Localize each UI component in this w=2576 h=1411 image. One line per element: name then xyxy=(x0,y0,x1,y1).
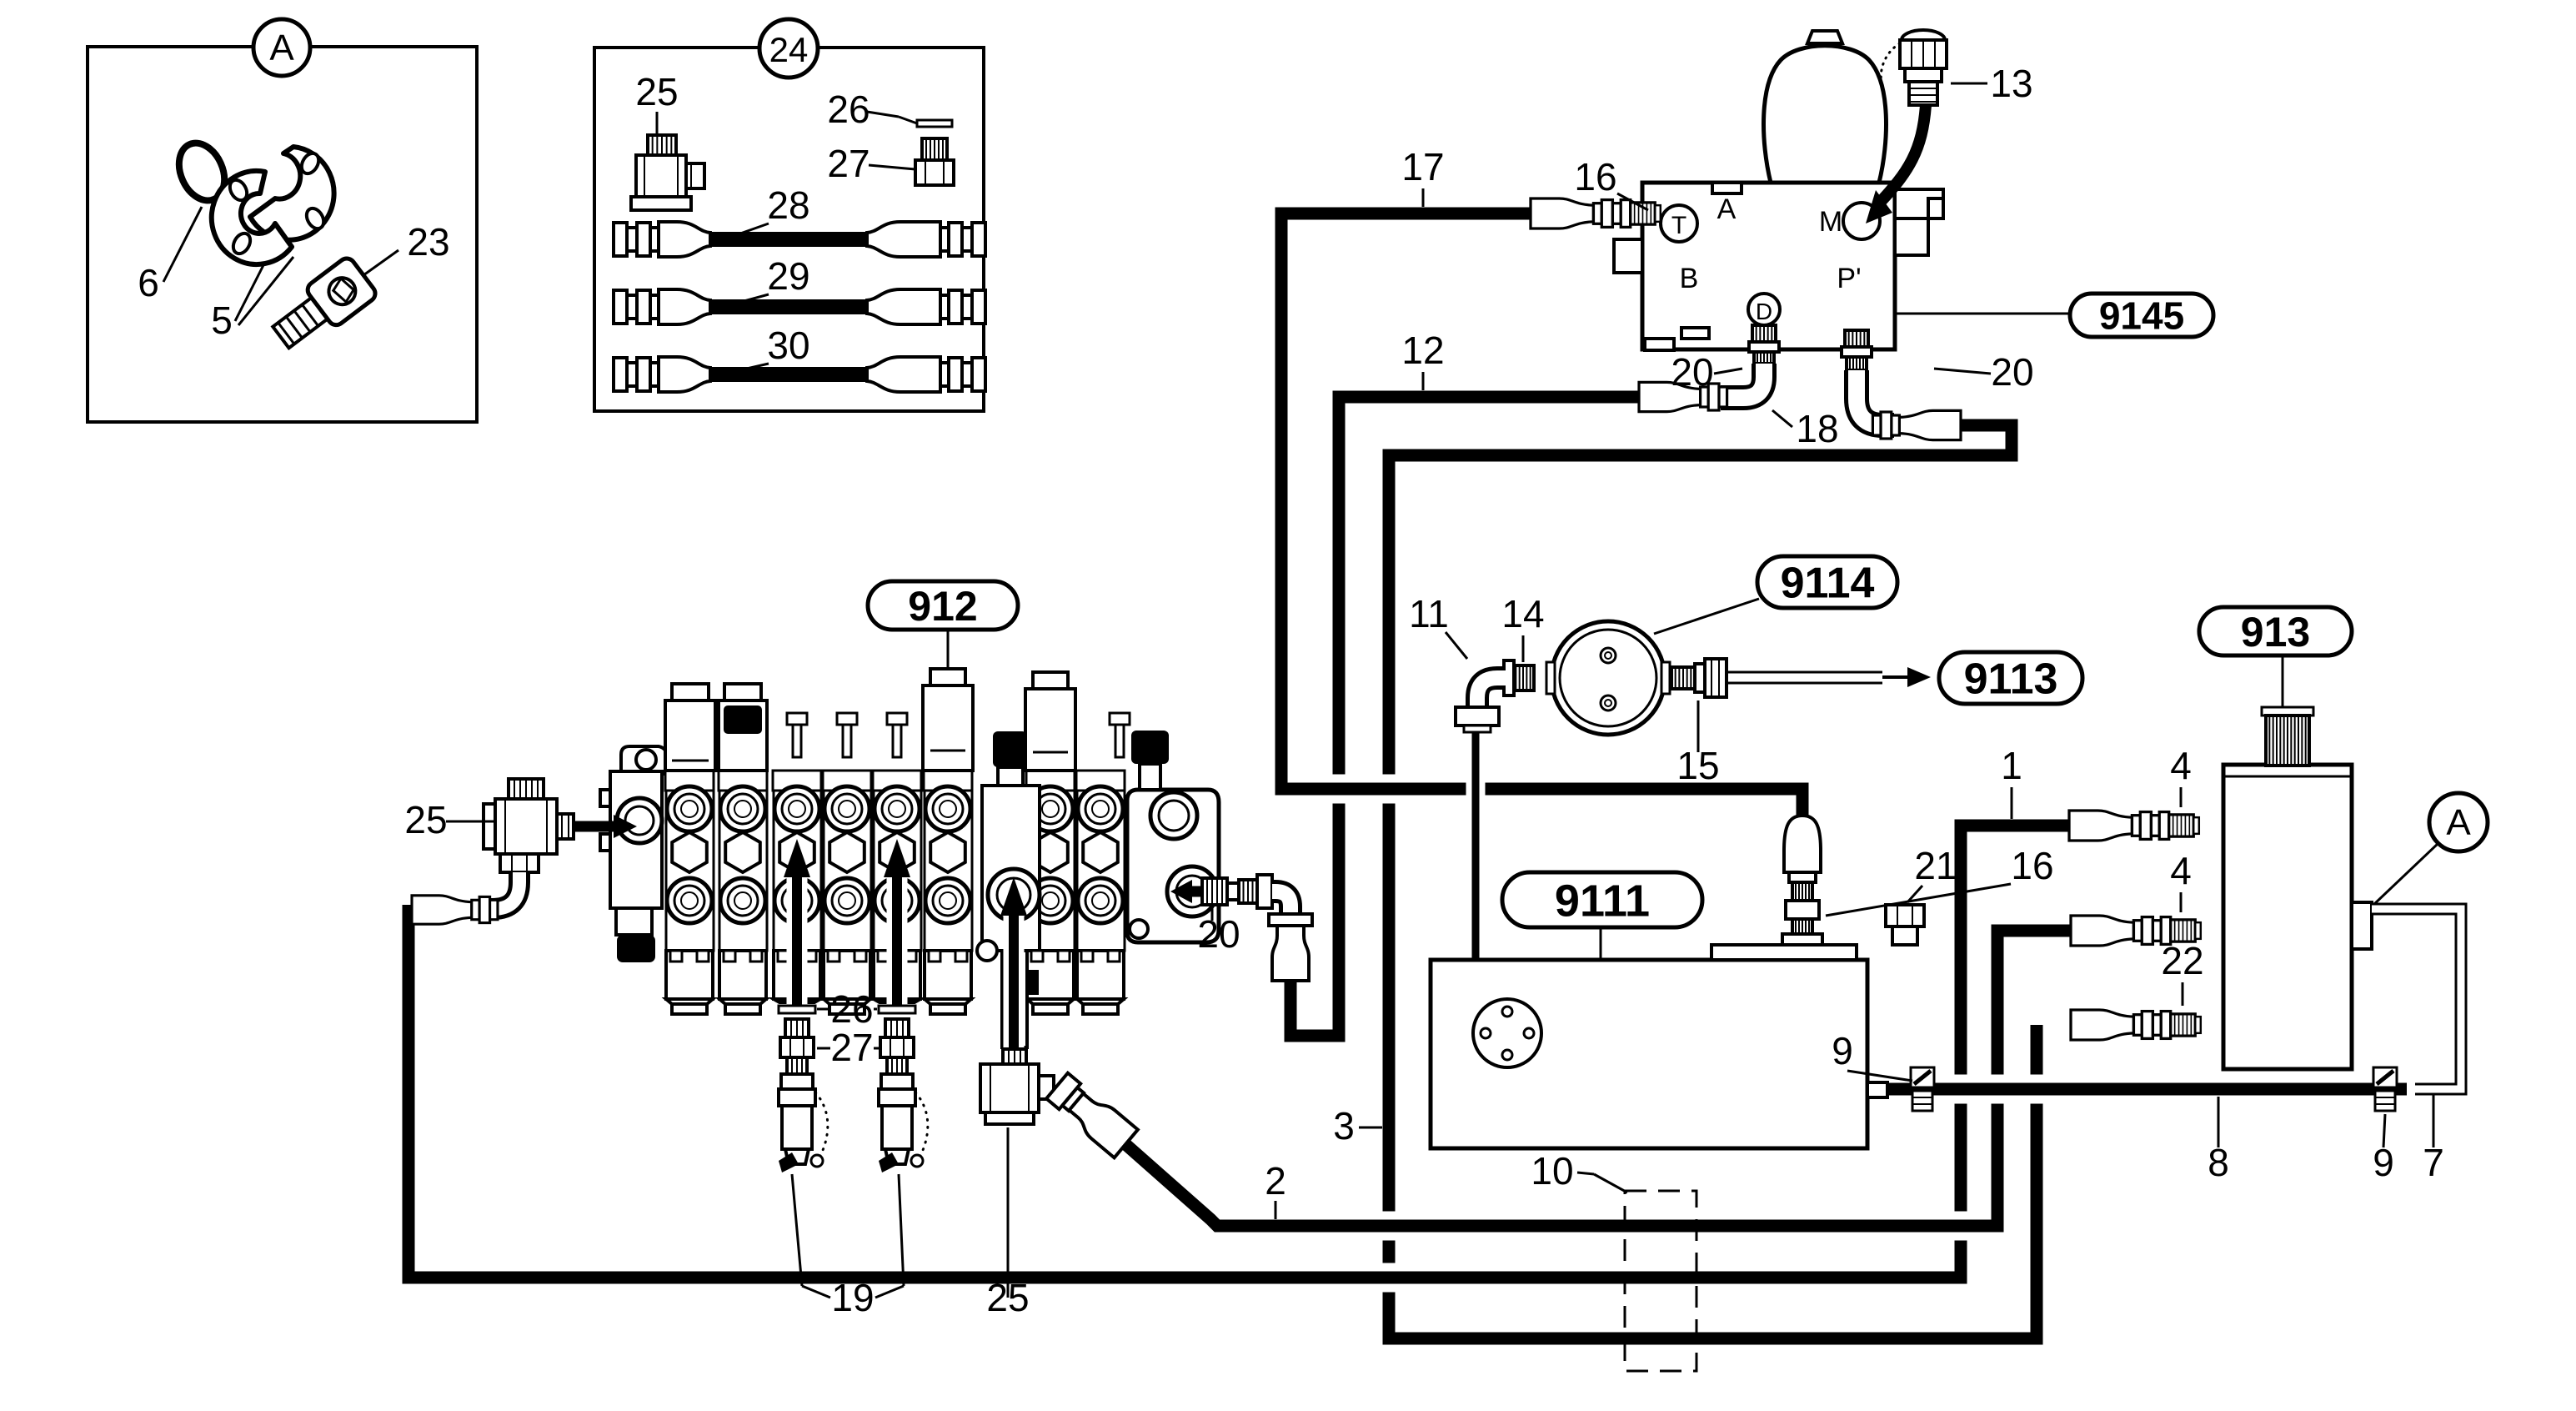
svg-text:9113: 9113 xyxy=(1964,655,2058,704)
svg-text:14: 14 xyxy=(1501,592,1544,635)
svg-text:1: 1 xyxy=(2001,744,2022,787)
port D xyxy=(1748,294,1780,325)
pump side tabs xyxy=(1546,662,1555,694)
svg-text:6: 6 xyxy=(138,261,159,304)
hose from fitting 13 to port M xyxy=(1877,105,1926,205)
svg-text:9145: 9145 xyxy=(2099,294,2184,338)
fittings 27 (pair) xyxy=(785,1019,809,1037)
svg-text:28: 28 xyxy=(767,183,809,227)
split flange clamp 5 (rear half) xyxy=(250,147,334,240)
hose end 1 into 913 xyxy=(2069,811,2199,841)
svg-text:9111: 9111 xyxy=(1555,876,1650,926)
elbow fitting 25 (below relief) xyxy=(1003,1049,1026,1064)
detail circle A xyxy=(253,19,310,76)
elbow under P' xyxy=(1857,370,1894,425)
port A notch xyxy=(1712,183,1742,193)
svg-text:17: 17 xyxy=(1401,145,1444,188)
detail circle 24 xyxy=(759,19,818,78)
fitting 16 on tank (hose 17 end) xyxy=(1784,816,1821,872)
tank top plate xyxy=(1711,945,1857,960)
hose 30 xyxy=(614,358,627,391)
svg-text:20: 20 xyxy=(1197,912,1240,956)
svg-text:24: 24 xyxy=(769,30,809,69)
hose 1 (913 upper port to valve bank inlet) xyxy=(408,826,2069,1278)
svg-text:9: 9 xyxy=(1832,1029,1853,1072)
detail box A frame xyxy=(88,47,477,422)
fitting 14 xyxy=(1512,665,1534,690)
tee fitting 25 at inlet xyxy=(509,779,544,799)
svg-text:25: 25 xyxy=(404,798,447,841)
tag 9113 xyxy=(1939,652,2082,704)
dashed box 10 xyxy=(1625,1191,1696,1371)
svg-text:D: D xyxy=(1756,299,1772,324)
hose end 45deg on elbow 25 xyxy=(1045,1072,1138,1157)
hose 12 (9145 B port to valve bank) xyxy=(1291,397,1639,1036)
socket head bolt 23 xyxy=(266,255,378,358)
svg-text:20: 20 xyxy=(1671,350,1713,394)
fitting 20 under port P' xyxy=(1845,330,1868,347)
svg-text:5: 5 xyxy=(211,299,233,342)
fitting 15 xyxy=(1671,667,1695,689)
hose end into left loop xyxy=(412,896,498,924)
fitting 16 at port T (adapter) xyxy=(1531,198,1661,228)
fitting 13 cap chain xyxy=(1881,43,1900,87)
svg-text:19: 19 xyxy=(831,1276,874,1319)
valve sections mid bodies xyxy=(665,771,714,791)
tank flange xyxy=(1473,999,1541,1067)
svg-text:18: 18 xyxy=(1796,407,1838,450)
valve bank 912 inlet end plate xyxy=(621,746,667,774)
svg-text:20: 20 xyxy=(1991,350,2033,394)
plug 27 (box 24) xyxy=(922,138,947,160)
port T xyxy=(1661,205,1697,242)
clamp 9 (right) xyxy=(2373,1067,2397,1111)
svg-text:30: 30 xyxy=(767,324,809,367)
line to 9113 xyxy=(1727,671,1882,674)
pump bolts xyxy=(1601,648,1616,663)
hose end 4 into 913 xyxy=(2071,916,2201,946)
913 canister xyxy=(2223,765,2352,1069)
tag 9111 xyxy=(1502,872,1702,927)
svg-text:3: 3 xyxy=(1333,1104,1355,1147)
svg-text:B: B xyxy=(1680,263,1699,294)
hose end of hose 12 xyxy=(1639,382,1727,411)
up arrow into relief section xyxy=(1004,909,1025,1052)
svg-text:10: 10 xyxy=(1531,1149,1573,1193)
elbow at outlet 20 xyxy=(1272,891,1291,914)
svg-text:27: 27 xyxy=(830,1026,873,1069)
o-ring 6 xyxy=(171,136,233,208)
svg-text:13: 13 xyxy=(1990,62,2032,105)
svg-text:26: 26 xyxy=(830,987,873,1031)
svg-text:16: 16 xyxy=(2011,844,2053,887)
svg-text:4: 4 xyxy=(2170,849,2192,892)
elbow under tee 25 xyxy=(489,872,519,909)
tag 9145 xyxy=(2070,294,2213,337)
913 side port xyxy=(2352,902,2372,949)
quick couplers 19 (pair) xyxy=(781,1074,813,1089)
clamp 9 at tank outlet xyxy=(1911,1067,1934,1111)
hose 3 (P' port to 913 lower port) xyxy=(1389,425,2037,1338)
fitting 13 with cap xyxy=(1900,30,1947,105)
valve ports (upper row) xyxy=(667,786,712,831)
fitting 20 under port D xyxy=(1752,325,1776,342)
fitting 21 on tank xyxy=(1886,905,1924,926)
svg-text:25: 25 xyxy=(635,70,678,113)
tag 913 xyxy=(2199,607,2352,655)
nut under tee 25 xyxy=(500,854,539,872)
section top caps xyxy=(672,684,709,700)
svg-text:A: A xyxy=(2446,802,2471,843)
svg-text:23: 23 xyxy=(407,220,449,264)
hose 2 (valve bank outlet to 913 middle port) xyxy=(1125,931,2071,1226)
hose end toward hose 3 xyxy=(1872,410,1961,439)
svg-text:12: 12 xyxy=(1401,329,1444,372)
split flange clamp 5 (front half) xyxy=(212,171,292,264)
svg-text:27: 27 xyxy=(827,142,870,185)
pipe 7 xyxy=(2372,909,2461,1089)
pump 9114 body xyxy=(1551,621,1665,735)
svg-text:M: M xyxy=(1819,206,1842,238)
913 striped cap xyxy=(2262,707,2313,716)
right outlet block xyxy=(1127,790,1219,942)
svg-text:P': P' xyxy=(1837,263,1861,294)
tag 9114 xyxy=(1757,556,1897,608)
svg-text:A: A xyxy=(1717,193,1737,225)
detail box 24 frame xyxy=(594,48,984,411)
up arrow (left) into section port xyxy=(787,871,808,1006)
inlet bottom stem xyxy=(616,908,652,935)
svg-text:9114: 9114 xyxy=(1781,560,1875,608)
elbow 11 xyxy=(1477,678,1506,707)
svg-text:21: 21 xyxy=(1914,844,1957,887)
hose 17 (9145 T port to tank 9111) xyxy=(1281,213,1802,831)
svg-text:16: 16 xyxy=(1574,155,1616,198)
svg-text:4: 4 xyxy=(2170,744,2192,787)
hose end below outlet elbow xyxy=(1269,914,1312,981)
feed line from elbow 11 to tank 9111 xyxy=(1466,731,1486,1009)
valve block 9145 xyxy=(1642,183,1895,349)
accumulator gas valve nipple xyxy=(1807,31,1842,43)
valve ports (lower row) xyxy=(667,878,712,923)
relief section stem to elbow 25 xyxy=(1002,951,1027,1047)
svg-text:22: 22 xyxy=(2161,939,2203,982)
hose 29 xyxy=(614,290,627,324)
hose 8 (tank outlet line) xyxy=(1886,1075,2407,1104)
hose end 22 into 913 xyxy=(2071,1010,2201,1040)
9145 left protrusion xyxy=(1614,239,1642,273)
hose 28 xyxy=(614,223,627,256)
fitting 25 (box 24) xyxy=(648,135,676,155)
right outlet fitting 20 xyxy=(1170,880,1192,903)
svg-text:11: 11 xyxy=(1409,592,1449,635)
inlet port (target of arrow 25) xyxy=(617,798,662,843)
tank outlet stub xyxy=(1867,1082,1887,1097)
tag 9145 xyxy=(1895,313,2070,315)
svg-text:A: A xyxy=(269,28,294,68)
9145 bottom-left foot xyxy=(1645,339,1674,350)
spool hex row xyxy=(672,832,707,872)
accumulator (on 9145 block) xyxy=(1763,46,1886,183)
washers 26 (pair) xyxy=(779,1006,815,1013)
port B notch xyxy=(1681,328,1709,339)
tank 9111 xyxy=(1431,960,1867,1148)
svg-text:26: 26 xyxy=(827,88,870,131)
washer 26 (box 24) xyxy=(917,120,952,127)
ref circle A (913) xyxy=(2429,793,2488,851)
svg-text:T: T xyxy=(1671,212,1686,239)
coupler male tips xyxy=(779,1152,799,1172)
svg-text:912: 912 xyxy=(908,583,977,630)
elbow 18 xyxy=(1721,364,1764,398)
relief valve section xyxy=(993,731,1027,767)
tag 912 xyxy=(868,581,1018,630)
9145 right protrusion upper xyxy=(1895,189,1943,218)
arrow to 9113 xyxy=(1882,675,1909,679)
svg-text:2: 2 xyxy=(1265,1159,1286,1203)
up arrow (right) into section port xyxy=(887,871,908,1006)
section bottom caps xyxy=(666,951,713,999)
arrowhead into tank 9111 xyxy=(1461,1001,1491,1041)
svg-text:29: 29 xyxy=(767,254,809,298)
arrow 25 into inlet xyxy=(575,821,617,832)
svg-text:913: 913 xyxy=(2241,609,2310,655)
